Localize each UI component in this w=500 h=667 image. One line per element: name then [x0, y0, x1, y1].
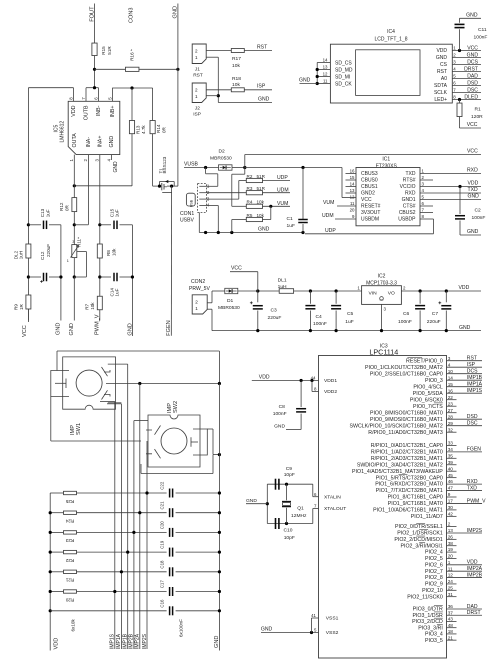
svg-text:A0: A0 [441, 76, 447, 82]
svg-text:2: 2 [195, 299, 198, 304]
svg-text:3V3OUT: 3V3OUT [361, 210, 380, 216]
svg-text:1uH: 1uH [19, 251, 24, 259]
svg-text:C21: C21 [160, 501, 165, 510]
svg-text:41: 41 [311, 613, 316, 618]
svg-text:R9: R9 [14, 304, 19, 310]
svg-text:CON3: CON3 [128, 8, 134, 24]
svg-text:DL2: DL2 [13, 250, 18, 259]
svg-text:VDD: VDD [259, 375, 270, 381]
svg-text:GND: GND [274, 424, 285, 430]
svg-text:30: 30 [448, 505, 454, 510]
svg-text:220uF: 220uF [427, 319, 441, 325]
svg-text:ISP: ISP [467, 362, 476, 368]
svg-text:VDD1: VDD1 [324, 378, 337, 384]
svg-text:28: 28 [448, 414, 454, 419]
svg-text:GND: GND [69, 323, 75, 335]
svg-text:GND: GND [467, 52, 479, 58]
svg-text:15: 15 [350, 175, 355, 180]
svg-text:SW1: SW1 [76, 423, 82, 435]
svg-text:1: 1 [195, 94, 198, 99]
svg-text:DSC: DSC [467, 87, 478, 93]
svg-text:GND: GND [258, 96, 270, 102]
svg-text:GND: GND [459, 325, 471, 331]
svg-text:PIO2_6: PIO2_6 [425, 562, 443, 568]
svg-text:UDP: UDP [325, 228, 336, 234]
svg-text:11: 11 [350, 201, 355, 206]
svg-text:CS: CS [440, 62, 448, 68]
svg-text:R22: R22 [65, 558, 74, 563]
svg-text:1: 1 [67, 259, 69, 263]
svg-text:1uF: 1uF [115, 209, 120, 217]
svg-text:4: 4 [448, 362, 451, 367]
svg-text:27: 27 [448, 408, 454, 413]
svg-text:100nF: 100nF [313, 321, 327, 327]
svg-text:VDD: VDD [71, 105, 77, 116]
svg-text:VSS1: VSS1 [326, 616, 339, 622]
svg-text:16: 16 [448, 388, 454, 393]
svg-text:GND: GND [468, 194, 480, 200]
svg-text:PIO3_4: PIO3_4 [425, 632, 443, 638]
svg-text:12: 12 [448, 573, 454, 578]
svg-text:10k: 10k [232, 63, 240, 69]
svg-text:39: 39 [448, 460, 454, 465]
svg-text:R1: R1 [475, 107, 482, 113]
svg-text:PWM_V: PWM_V [467, 498, 486, 504]
svg-text:PIO1_11/AD7: PIO1_11/AD7 [411, 514, 443, 520]
svg-text:C8: C8 [279, 404, 286, 410]
svg-text:USBDM: USBDM [361, 217, 379, 223]
svg-text:C10: C10 [284, 528, 293, 534]
svg-text:VCCIO: VCCIO [400, 184, 416, 190]
svg-text:2: 2 [448, 522, 451, 527]
svg-text:VUM: VUM [277, 201, 288, 207]
svg-text:R15: R15 [101, 46, 106, 55]
svg-text:SDTA: SDTA [434, 83, 448, 89]
svg-text:1R: 1R [19, 303, 24, 310]
svg-text:UDP: UDP [277, 175, 288, 181]
svg-text:PIO0_1/CLKOUT/CT32B0_MAT2: PIO0_1/CLKOUT/CT32B0_MAT2 [365, 365, 443, 371]
svg-text:35: 35 [448, 453, 454, 458]
svg-text:VCC: VCC [467, 45, 478, 51]
svg-text:VDD: VDD [459, 285, 470, 291]
svg-text:CTS#: CTS# [403, 204, 416, 210]
svg-text:IMP2S: IMP2S [467, 528, 483, 534]
svg-text:RST: RST [257, 44, 267, 50]
svg-text:1: 1 [195, 55, 198, 60]
svg-text:C6: C6 [403, 311, 410, 317]
svg-text:RST: RST [467, 356, 477, 362]
svg-text:IMP1S: IMP1S [110, 633, 116, 649]
svg-text:C19: C19 [160, 540, 165, 549]
svg-text:31: 31 [448, 592, 454, 597]
svg-text:GND: GND [436, 55, 448, 61]
svg-text:USBV: USBV [180, 218, 194, 224]
svg-text:R/PIO1_1/AD2/CT32B1_MAT0: R/PIO1_1/AD2/CT32B1_MAT0 [371, 449, 443, 455]
svg-text:PIO2_8: PIO2_8 [425, 575, 443, 581]
svg-text:C17: C17 [160, 580, 165, 589]
svg-text:C9: C9 [286, 466, 293, 472]
svg-text:CBUS3: CBUS3 [361, 171, 378, 177]
svg-text:PIO0_8/MISO0/CT16B0_MAT0: PIO0_8/MISO0/CT16B0_MAT0 [370, 410, 443, 416]
svg-text:13: 13 [323, 65, 328, 70]
svg-text:CBUS2: CBUS2 [399, 210, 416, 216]
svg-text:PIO2_4: PIO2_4 [425, 550, 443, 556]
svg-text:100nF: 100nF [472, 215, 486, 221]
svg-text:29: 29 [448, 421, 454, 426]
svg-text:SD_CK: SD_CK [335, 81, 352, 87]
svg-text:J1: J1 [195, 66, 200, 72]
svg-text:USB: USB [190, 199, 194, 207]
svg-text:UDM: UDM [277, 187, 289, 193]
svg-text:23: 23 [448, 401, 454, 406]
svg-text:CON1: CON1 [180, 211, 194, 217]
svg-text:1uF: 1uF [287, 223, 295, 229]
svg-text:DSD: DSD [467, 414, 478, 420]
svg-text:34: 34 [448, 447, 454, 452]
svg-text:R/PIO0_11/AD0/CT32B0_MAT3: R/PIO0_11/AD0/CT32B0_MAT3 [368, 430, 443, 436]
svg-text:GND: GND [261, 627, 273, 633]
svg-text:VCC: VCC [22, 325, 28, 337]
svg-text:DRST: DRST [464, 66, 478, 72]
svg-text:C12: C12 [40, 251, 45, 260]
svg-text:R8: R8 [106, 250, 111, 256]
svg-text:DCS: DCS [467, 59, 478, 65]
svg-text:PIO3_3/RI: PIO3_3/RI [418, 625, 443, 631]
svg-text:9: 9 [448, 492, 451, 497]
svg-text:C22: C22 [160, 481, 165, 490]
svg-text:IMP2B: IMP2B [467, 572, 483, 578]
svg-text:PIO1_7/TXD/CT32B0_MAT1: PIO1_7/TXD/CT32B0_MAT1 [376, 488, 443, 494]
svg-text:VSS2: VSS2 [326, 630, 339, 636]
svg-text:C2: C2 [475, 207, 482, 213]
svg-text:100nF: 100nF [273, 411, 287, 417]
svg-text:1uF: 1uF [45, 209, 50, 217]
svg-text:10k: 10k [257, 213, 265, 218]
svg-text:6x10k: 6x10k [71, 619, 76, 632]
svg-text:12MHz: 12MHz [291, 513, 307, 519]
svg-text:1: 1 [195, 306, 198, 311]
svg-text:6x100nF: 6x100nF [178, 619, 183, 637]
svg-text:C15: C15 [109, 208, 114, 217]
svg-text:R5: R5 [247, 213, 253, 218]
svg-text:DAD: DAD [467, 604, 478, 610]
svg-text:GND: GND [56, 323, 62, 335]
svg-text:PIO0_7/CTS: PIO0_7/CTS [413, 404, 443, 410]
svg-text:C16: C16 [160, 599, 165, 608]
svg-text:BSS123: BSS123 [162, 156, 167, 173]
svg-text:10k: 10k [257, 200, 265, 205]
svg-text:CBUS1: CBUS1 [361, 184, 378, 190]
svg-text:14: 14 [350, 182, 355, 187]
svg-text:PIO1_4/AD5/CT32B1_MAT3/WAKEUP: PIO1_4/AD5/CT32B1_MAT3/WAKEUP [352, 469, 443, 475]
svg-text:GND: GND [246, 498, 257, 504]
svg-text:SW2: SW2 [173, 401, 179, 413]
svg-text:PWM_V: PWM_V [95, 314, 101, 335]
svg-text:J2: J2 [195, 106, 200, 112]
svg-text:VDD: VDD [54, 638, 60, 650]
svg-text:0R: 0R [64, 204, 69, 211]
svg-text:R16 *: R16 * [129, 49, 134, 61]
svg-text:R24: R24 [65, 519, 74, 524]
svg-text:VIN: VIN [369, 290, 378, 296]
svg-text:20: 20 [350, 208, 355, 213]
svg-text:1uH: 1uH [278, 284, 287, 290]
svg-text:PIO0_6/SCK0: PIO0_6/SCK0 [410, 397, 443, 403]
svg-text:PIO2_1/DSR/SCK1: PIO2_1/DSR/SCK1 [397, 531, 443, 537]
svg-text:51R: 51R [257, 186, 266, 191]
svg-text:VO: VO [388, 290, 395, 296]
svg-text:42: 42 [448, 511, 454, 516]
svg-text:220uF: 220uF [46, 244, 51, 257]
svg-text:10pF: 10pF [284, 535, 295, 541]
svg-text:VCC: VCC [231, 266, 242, 272]
svg-text:13: 13 [448, 528, 454, 533]
svg-text:12: 12 [350, 195, 355, 200]
svg-text:IC1: IC1 [382, 156, 390, 162]
svg-text:R23: R23 [65, 538, 74, 543]
svg-text:36: 36 [448, 604, 454, 609]
svg-text:VUSB: VUSB [184, 162, 198, 168]
svg-text:VCC: VCC [467, 122, 478, 128]
svg-text:R12: R12 [59, 202, 64, 211]
svg-text:PIO1_5/RTS/CT32B0_CAP0: PIO1_5/RTS/CT32B0_CAP0 [376, 475, 443, 481]
svg-text:120R: 120R [471, 114, 483, 120]
svg-text:PIO2_0/DTR/SSEL1: PIO2_0/DTR/SSEL1 [395, 524, 443, 530]
svg-text:DAD: DAD [467, 73, 478, 79]
svg-text:47: 47 [448, 486, 454, 491]
svg-text:TXD: TXD [406, 171, 416, 177]
svg-text:3: 3 [448, 356, 451, 361]
svg-text:TXD: TXD [468, 187, 479, 193]
svg-text:MBR0530: MBR0530 [210, 155, 232, 161]
svg-text:C20: C20 [160, 521, 165, 530]
svg-text:11: 11 [323, 79, 328, 84]
svg-text:R13: R13 [136, 125, 141, 134]
svg-text:GND1: GND1 [402, 197, 416, 203]
svg-text:13: 13 [350, 188, 355, 193]
svg-text:DL1: DL1 [278, 277, 287, 283]
svg-text:INA-: INA- [86, 137, 92, 148]
svg-text:SD_MD: SD_MD [335, 67, 353, 73]
svg-text:48: 48 [448, 623, 454, 628]
svg-text:VDD2: VDD2 [324, 389, 337, 395]
svg-text:R7: R7 [85, 303, 90, 309]
svg-text:PIO2_7: PIO2_7 [425, 569, 443, 575]
svg-text:IMP1S: IMP1S [467, 388, 483, 394]
svg-text:Q1: Q1 [297, 506, 304, 512]
svg-text:16: 16 [350, 169, 355, 174]
svg-text:10k: 10k [232, 82, 240, 88]
svg-text:3: 3 [72, 240, 74, 244]
svg-text:XTALIN: XTALIN [324, 494, 341, 500]
svg-text:USBDP: USBDP [398, 217, 416, 223]
svg-text:C3: C3 [271, 308, 278, 314]
svg-text:OUTB: OUTB [84, 105, 90, 120]
svg-text:R/PIO1_0/AD1/CT32B1_CAP0: R/PIO1_0/AD1/CT32B1_CAP0 [371, 443, 443, 449]
svg-text:C1: C1 [287, 216, 294, 222]
svg-text:D1: D1 [227, 298, 234, 304]
svg-text:4.7k: 4.7k [141, 125, 146, 134]
svg-text:1: 1 [448, 560, 451, 565]
svg-text:37: 37 [448, 610, 454, 615]
svg-text:VCC: VCC [361, 197, 372, 203]
svg-text:10k: 10k [112, 248, 117, 256]
svg-text:INB+: INB+ [110, 106, 116, 118]
svg-text:40: 40 [448, 466, 454, 471]
svg-text:R14: R14 [156, 124, 161, 133]
svg-text:1uF: 1uF [345, 319, 353, 325]
svg-text:DLED: DLED [464, 94, 478, 100]
svg-text:PIO0_3: PIO0_3 [425, 378, 443, 384]
svg-text:10pF: 10pF [284, 472, 295, 478]
svg-text:25: 25 [448, 585, 454, 590]
svg-text:R20: R20 [65, 597, 74, 602]
svg-text:RTS#: RTS# [403, 178, 416, 184]
svg-text:GND: GND [113, 161, 119, 173]
svg-text:SCLK: SCLK [434, 90, 448, 96]
svg-text:ISP: ISP [257, 84, 266, 90]
svg-text:IMP2S: IMP2S [142, 633, 148, 649]
svg-text:14: 14 [448, 375, 454, 380]
svg-text:FGEN: FGEN [166, 320, 172, 336]
svg-text:DSC: DSC [467, 421, 478, 427]
svg-text:C11: C11 [478, 27, 487, 33]
svg-text:24: 24 [448, 579, 454, 584]
svg-text:VDD: VDD [436, 48, 447, 54]
svg-text:PIO2_10: PIO2_10 [422, 588, 443, 594]
svg-text:IMP1A: IMP1A [467, 382, 483, 388]
svg-text:ISP: ISP [193, 112, 201, 118]
svg-text:PIO3_5: PIO3_5 [425, 638, 443, 644]
svg-text:20: 20 [448, 554, 454, 559]
svg-text:220uF: 220uF [268, 315, 282, 321]
svg-text:GND: GND [466, 13, 478, 19]
svg-text:IC4: IC4 [387, 29, 395, 35]
svg-text:VDD: VDD [468, 181, 479, 187]
svg-text:PIO2_3/RI/MOSI1: PIO2_3/RI/MOSI1 [400, 543, 442, 549]
svg-text:PIO0_5/SDA: PIO0_5/SDA [413, 391, 444, 397]
svg-text:PIO2_9: PIO2_9 [425, 582, 443, 588]
svg-text:FT230XS: FT230XS [376, 163, 398, 169]
svg-text:21: 21 [448, 635, 454, 640]
svg-text:GND: GND [109, 136, 115, 148]
svg-text:DCS: DCS [467, 369, 478, 375]
svg-text:INA+: INA+ [98, 136, 104, 148]
svg-text:R17: R17 [232, 56, 241, 62]
svg-text:15: 15 [448, 382, 454, 387]
svg-text:18: 18 [448, 629, 454, 634]
svg-text:2: 2 [195, 87, 198, 92]
svg-text:100nF: 100nF [398, 319, 412, 325]
svg-text:PIO1_9/CT16B1_MAT0: PIO1_9/CT16B1_MAT0 [388, 501, 443, 507]
svg-text:22: 22 [448, 395, 454, 400]
svg-text:43: 43 [448, 617, 454, 622]
svg-text:C4: C4 [316, 314, 323, 320]
svg-text:RXD: RXD [405, 191, 416, 197]
svg-text:IMP2A: IMP2A [135, 633, 141, 649]
svg-text:LED+: LED+ [434, 97, 447, 103]
svg-text:CON2: CON2 [191, 279, 205, 285]
svg-text:IC2: IC2 [378, 273, 386, 279]
svg-text:GND2: GND2 [361, 191, 375, 197]
svg-text:R4: R4 [247, 200, 253, 205]
svg-text:R18: R18 [232, 76, 241, 82]
svg-text:PIO0_4/SCL: PIO0_4/SCL [413, 384, 443, 390]
svg-text:R25: R25 [65, 499, 74, 504]
svg-text:LMH6612: LMH6612 [60, 121, 66, 143]
svg-text:IMP2A: IMP2A [467, 566, 483, 572]
svg-text:17: 17 [448, 499, 454, 504]
svg-text:10k: 10k [90, 302, 95, 310]
svg-text:C5: C5 [347, 311, 354, 317]
svg-text:GND: GND [214, 636, 220, 648]
svg-text:C13: C13 [40, 208, 45, 217]
svg-text:PIO2_11/SCK0: PIO2_11/SCK0 [407, 594, 443, 600]
svg-text:R2: R2 [247, 174, 253, 179]
svg-text:FGEN: FGEN [467, 447, 481, 453]
svg-text:DRST: DRST [467, 610, 481, 616]
svg-text:RESET#: RESET# [361, 204, 381, 210]
svg-text:10: 10 [448, 369, 454, 374]
svg-text:GND: GND [299, 78, 311, 84]
svg-text:LCD_TFT_1_8: LCD_TFT_1_8 [374, 37, 407, 43]
svg-text:GND: GND [467, 229, 479, 235]
svg-text:IMP1B: IMP1B [123, 633, 129, 649]
svg-text:C7: C7 [432, 311, 439, 317]
svg-text:51R: 51R [107, 46, 112, 55]
svg-text:OUTA: OUTA [72, 133, 78, 148]
svg-text:C14: C14 [109, 288, 114, 297]
svg-text:12: 12 [323, 72, 328, 77]
svg-text:RXD: RXD [467, 168, 478, 174]
svg-text:RST: RST [437, 69, 447, 75]
svg-text:PIO2_2/DCD/MISO1: PIO2_2/DCD/MISO1 [394, 537, 443, 543]
svg-text:SWDIO/PIO1_3/AD4/CT32B1_MAT2: SWDIO/PIO1_3/AD4/CT32B1_MAT2 [357, 462, 443, 468]
svg-text:UDM: UDM [322, 213, 334, 219]
svg-text:11: 11 [448, 566, 453, 571]
svg-text:MBR0530: MBR0530 [218, 305, 240, 311]
svg-text:TXD: TXD [467, 485, 478, 491]
svg-text:PIO1_6/RXD/CT32B0_MAT0: PIO1_6/RXD/CT32B0_MAT0 [375, 482, 443, 488]
svg-text:45: 45 [448, 473, 454, 478]
svg-text:VUM: VUM [323, 200, 334, 206]
svg-text:SWCLK/PIO0_10/SCK0/CT16B0_MAT2: SWCLK/PIO0_10/SCK0/CT16B0_MAT2 [350, 423, 443, 429]
svg-text:32: 32 [448, 427, 454, 432]
svg-text:R3: R3 [247, 186, 253, 191]
svg-text:VDD: VDD [467, 560, 478, 566]
svg-text:PIO2_5: PIO2_5 [425, 556, 443, 562]
svg-text:PRW_5V: PRW_5V [189, 286, 210, 292]
svg-text:14: 14 [323, 58, 328, 63]
svg-text:SD_MI: SD_MI [335, 74, 350, 80]
svg-text:RESET/PIO0_0: RESET/PIO0_0 [406, 358, 443, 364]
svg-text:R21: R21 [65, 578, 74, 583]
svg-text:38: 38 [448, 541, 454, 546]
svg-text:R11*: R11* [77, 237, 82, 247]
svg-text:GND: GND [127, 323, 133, 335]
svg-text:IMP1B: IMP1B [467, 375, 483, 381]
svg-text:PIO0_9/MOSI0/CT16B0_MAT1: PIO0_9/MOSI0/CT16B0_MAT1 [370, 417, 443, 423]
svg-text:1uF: 1uF [115, 288, 120, 296]
svg-text:GND: GND [258, 227, 270, 233]
svg-text:R/PIO1_2/AD3/CT32B1_MAT1: R/PIO1_2/AD3/CT32B1_MAT1 [371, 456, 443, 462]
svg-text:RXD: RXD [467, 479, 478, 485]
svg-text:CBUS0: CBUS0 [361, 178, 378, 184]
svg-text:33: 33 [448, 441, 454, 446]
svg-text:SD_CS: SD_CS [335, 60, 352, 66]
svg-text:C18: C18 [160, 560, 165, 569]
svg-text:46: 46 [448, 479, 454, 484]
